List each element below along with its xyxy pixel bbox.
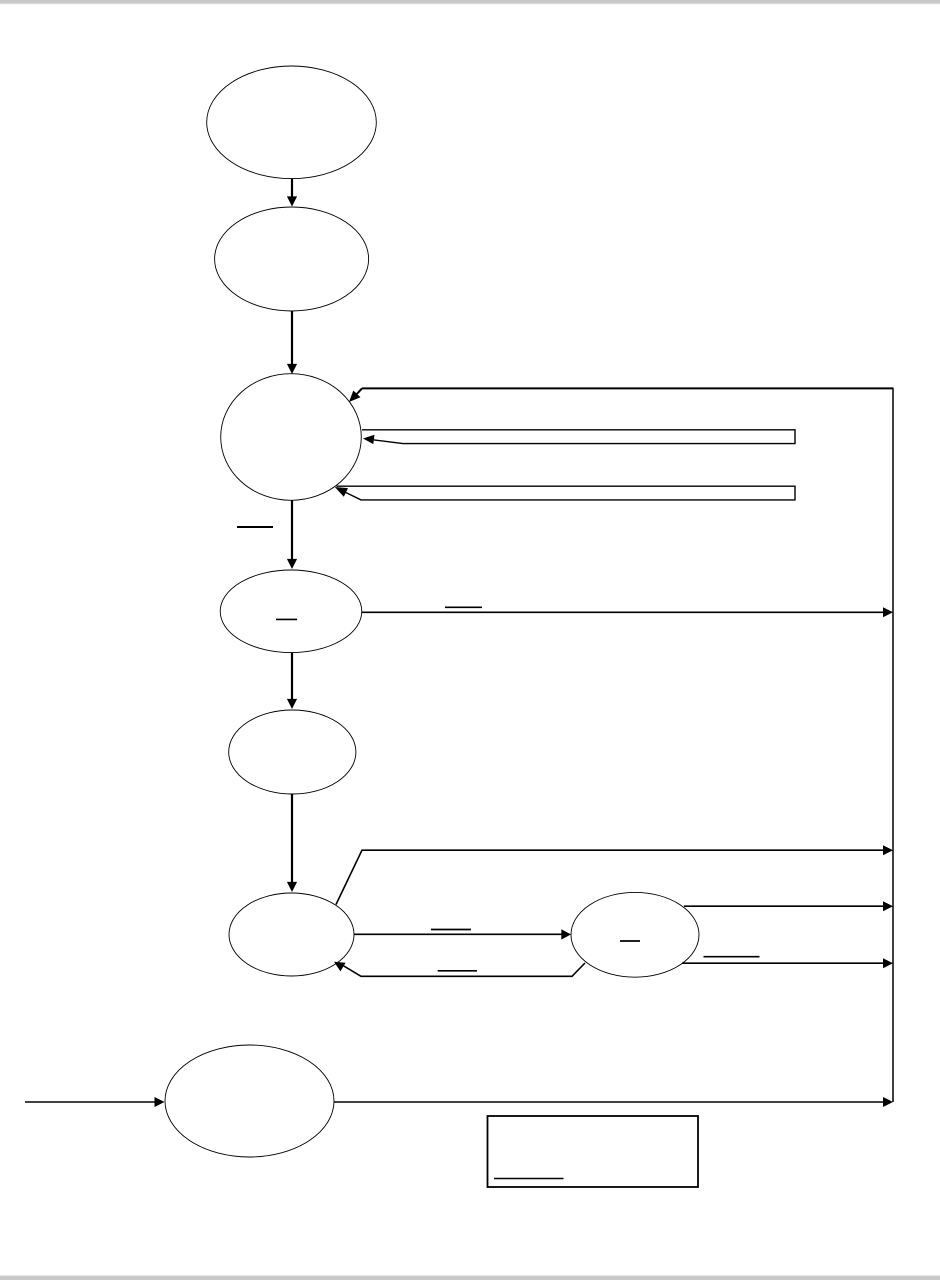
- underline label on S6 S7 wire: [431, 929, 471, 931]
- underline label on S7 return wire: [438, 970, 477, 972]
- node S4 ellipse: [220, 570, 362, 653]
- underline label inside S4: [276, 618, 297, 620]
- legend box: [488, 1116, 699, 1187]
- node S6 ellipse: [229, 893, 354, 976]
- wire S5 to S6 arrow: [287, 794, 297, 892]
- wire S7 return to S6 arrow: [334, 962, 585, 977]
- wire S7 top to bus arrow: [684, 901, 893, 911]
- underline label on S4 bus wire: [445, 606, 482, 608]
- node S5 ellipse: [229, 710, 356, 794]
- wire external input to S8 arrow: [25, 1097, 165, 1107]
- node S1 ellipse: [207, 66, 377, 179]
- wire S3 to S4 arrow: [287, 500, 297, 569]
- underline label below S3: [237, 526, 273, 528]
- viewer bottom gray bar: [0, 1275, 940, 1280]
- node S7 ellipse: [571, 892, 699, 977]
- wire S4 to bus arrow: [362, 607, 893, 617]
- underline label on S7 bottom wire: [704, 956, 760, 958]
- viewer top gray bar: [0, 0, 940, 5]
- wire S4 to S5 arrow: [287, 653, 297, 710]
- underline label inside S7: [620, 940, 640, 942]
- node S8 ellipse: [165, 1045, 334, 1157]
- wire S8 to bus arrow: [334, 1097, 893, 1107]
- node S3 circle: [221, 374, 362, 501]
- wire S1 to S2 arrow: [287, 179, 297, 207]
- wire S2 to S3 arrow: [287, 311, 297, 374]
- callout box F1 with arrow to S3: [362, 430, 795, 444]
- node S2 ellipse: [215, 207, 369, 311]
- wire S6 to S7 arrow: [354, 929, 571, 939]
- callout box F2 with arrow to S3: [335, 486, 795, 500]
- feedback wire bus to S3 arrow: [349, 388, 894, 402]
- wire S6 to bus arrow: [336, 845, 893, 904]
- underline label inside legend box: [494, 1178, 564, 1180]
- feedback bus vertical wire: [892, 388, 894, 1102]
- wire S7 bottom to bus arrow: [682, 958, 893, 968]
